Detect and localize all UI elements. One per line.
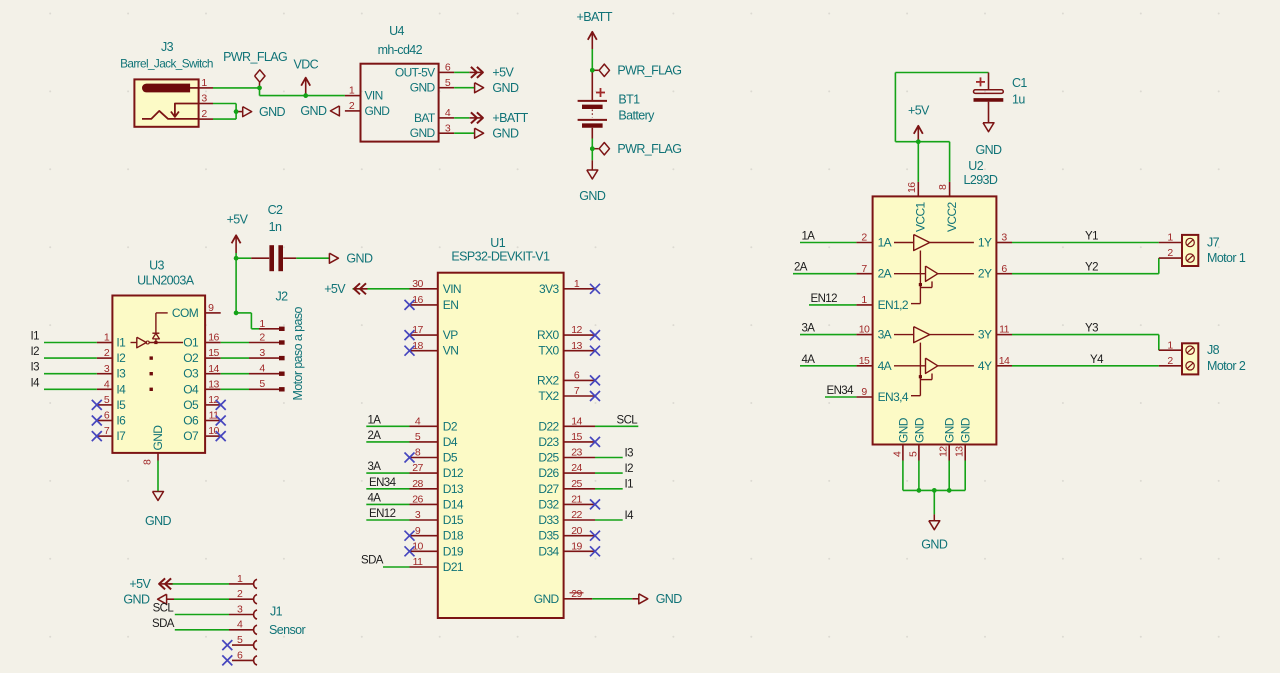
svg-text:3: 3 bbox=[415, 509, 421, 521]
svg-text:11: 11 bbox=[999, 324, 1009, 336]
svg-text:1: 1 bbox=[861, 294, 867, 306]
svg-text:6: 6 bbox=[574, 370, 580, 382]
svg-text:+5V: +5V bbox=[908, 104, 930, 118]
svg-text:5: 5 bbox=[237, 634, 243, 646]
svg-text:RX0: RX0 bbox=[537, 328, 559, 342]
svg-text:4: 4 bbox=[891, 451, 903, 457]
svg-text:2A: 2A bbox=[878, 267, 892, 281]
svg-text:21: 21 bbox=[571, 494, 582, 506]
svg-text:1Y: 1Y bbox=[978, 236, 992, 250]
svg-text:4: 4 bbox=[259, 363, 265, 375]
svg-text:1A: 1A bbox=[878, 236, 892, 250]
svg-text:7: 7 bbox=[861, 263, 867, 275]
svg-text:4: 4 bbox=[104, 378, 110, 390]
svg-text:U4: U4 bbox=[389, 24, 404, 38]
svg-text:GND: GND bbox=[896, 417, 910, 443]
svg-text:D12: D12 bbox=[443, 466, 464, 480]
svg-text:5: 5 bbox=[445, 77, 451, 89]
svg-text:VN: VN bbox=[443, 344, 458, 358]
svg-text:PWR_FLAG: PWR_FLAG bbox=[617, 64, 681, 78]
svg-text:COM: COM bbox=[172, 306, 199, 320]
svg-text:16: 16 bbox=[906, 182, 918, 193]
svg-text:O4: O4 bbox=[183, 382, 199, 396]
svg-text:I2: I2 bbox=[31, 346, 40, 358]
svg-text:6: 6 bbox=[445, 62, 451, 74]
svg-text:D4: D4 bbox=[443, 435, 458, 449]
svg-text:D33: D33 bbox=[538, 513, 559, 527]
svg-text:2: 2 bbox=[1167, 247, 1173, 259]
svg-text:J2: J2 bbox=[275, 289, 288, 303]
svg-text:O6: O6 bbox=[183, 414, 199, 428]
svg-text:15: 15 bbox=[571, 431, 582, 443]
svg-text:TX0: TX0 bbox=[538, 344, 559, 358]
svg-text:EN34: EN34 bbox=[369, 477, 397, 489]
svg-text:14: 14 bbox=[999, 355, 1010, 367]
svg-text:14: 14 bbox=[571, 415, 582, 427]
svg-text:Sensor: Sensor bbox=[269, 623, 305, 637]
svg-text:Motor 1: Motor 1 bbox=[1207, 251, 1246, 265]
svg-text:I2: I2 bbox=[116, 351, 126, 365]
svg-text:4: 4 bbox=[237, 619, 243, 631]
svg-text:12: 12 bbox=[571, 324, 582, 336]
svg-text:2: 2 bbox=[1167, 355, 1173, 367]
svg-text:I4: I4 bbox=[31, 377, 41, 389]
svg-text:D32: D32 bbox=[538, 497, 559, 511]
svg-text:D22: D22 bbox=[538, 419, 559, 433]
svg-text:7: 7 bbox=[574, 385, 580, 397]
svg-text:PWR_FLAG: PWR_FLAG bbox=[617, 142, 681, 156]
svg-text:25: 25 bbox=[571, 478, 582, 490]
svg-text:I4: I4 bbox=[116, 382, 126, 396]
svg-text:U3: U3 bbox=[149, 259, 164, 273]
svg-text:O3: O3 bbox=[183, 367, 199, 381]
svg-text:GND: GND bbox=[123, 593, 150, 607]
svg-text:15: 15 bbox=[859, 355, 870, 367]
svg-text:5: 5 bbox=[104, 394, 110, 406]
svg-text:2: 2 bbox=[104, 347, 110, 359]
svg-text:RX2: RX2 bbox=[537, 373, 559, 387]
svg-text:SDA: SDA bbox=[152, 618, 175, 630]
svg-text:VP: VP bbox=[443, 328, 458, 342]
svg-text:19: 19 bbox=[571, 540, 582, 552]
svg-text:D15: D15 bbox=[443, 513, 464, 527]
svg-text:2: 2 bbox=[861, 232, 867, 244]
svg-text:O7: O7 bbox=[183, 429, 199, 443]
svg-text:EN3,4: EN3,4 bbox=[878, 390, 909, 404]
svg-text:GND: GND bbox=[921, 538, 948, 552]
svg-text:GND: GND bbox=[145, 514, 172, 528]
svg-text:20: 20 bbox=[571, 525, 582, 537]
svg-text:23: 23 bbox=[571, 447, 582, 459]
svg-text:2Y: 2Y bbox=[978, 267, 992, 281]
svg-text:8: 8 bbox=[937, 184, 949, 190]
svg-text:30: 30 bbox=[412, 278, 423, 290]
svg-text:D19: D19 bbox=[443, 544, 464, 558]
svg-text:5: 5 bbox=[415, 431, 421, 443]
svg-text:I6: I6 bbox=[116, 414, 126, 428]
svg-text:2: 2 bbox=[349, 100, 355, 112]
svg-text:3A: 3A bbox=[368, 461, 382, 473]
svg-text:I4: I4 bbox=[625, 510, 635, 522]
svg-text:D14: D14 bbox=[443, 497, 464, 511]
svg-text:I1: I1 bbox=[31, 331, 40, 343]
svg-text:D25: D25 bbox=[538, 451, 559, 465]
svg-text:3Y: 3Y bbox=[978, 328, 992, 342]
svg-text:6: 6 bbox=[1001, 263, 1007, 275]
svg-text:SDA: SDA bbox=[361, 555, 384, 567]
svg-text:OUT-5V: OUT-5V bbox=[395, 65, 435, 79]
svg-text:1u: 1u bbox=[1012, 92, 1025, 106]
svg-text:4A: 4A bbox=[878, 359, 892, 373]
svg-text:6: 6 bbox=[237, 649, 243, 661]
svg-text:2: 2 bbox=[259, 331, 265, 343]
svg-text:1: 1 bbox=[237, 573, 243, 585]
svg-text:GND: GND bbox=[410, 126, 436, 140]
svg-text:+BATT: +BATT bbox=[492, 111, 528, 125]
svg-text:Y1: Y1 bbox=[1085, 231, 1098, 243]
svg-text:27: 27 bbox=[412, 462, 423, 474]
svg-text:5: 5 bbox=[907, 451, 919, 457]
svg-text:6: 6 bbox=[104, 410, 110, 422]
svg-text:9: 9 bbox=[208, 302, 214, 314]
svg-text:D2: D2 bbox=[443, 419, 458, 433]
svg-text:D35: D35 bbox=[538, 529, 559, 543]
svg-text:J1: J1 bbox=[270, 605, 283, 619]
svg-text:O2: O2 bbox=[183, 351, 199, 365]
svg-text:4A: 4A bbox=[802, 354, 816, 366]
svg-text:22: 22 bbox=[571, 509, 582, 521]
svg-text:GND: GND bbox=[300, 104, 327, 118]
svg-text:26: 26 bbox=[412, 494, 423, 506]
svg-text:SCL: SCL bbox=[617, 414, 639, 426]
svg-text:VCC2: VCC2 bbox=[945, 201, 959, 232]
svg-text:1: 1 bbox=[1167, 339, 1173, 351]
svg-text:1: 1 bbox=[574, 278, 580, 290]
svg-text:I5: I5 bbox=[116, 398, 126, 412]
svg-text:GND: GND bbox=[346, 252, 373, 266]
svg-text:GND: GND bbox=[492, 81, 519, 95]
svg-text:GND: GND bbox=[151, 425, 165, 451]
svg-text:GND: GND bbox=[492, 127, 519, 141]
svg-text:7: 7 bbox=[104, 425, 110, 437]
svg-text:EN: EN bbox=[443, 298, 458, 312]
svg-text:I3: I3 bbox=[625, 447, 634, 459]
svg-text:J3: J3 bbox=[161, 40, 174, 54]
svg-text:U2: U2 bbox=[968, 159, 983, 173]
svg-text:GND: GND bbox=[976, 143, 1003, 157]
svg-text:2: 2 bbox=[201, 108, 207, 120]
svg-text:D34: D34 bbox=[538, 544, 559, 558]
svg-text:ESP32-DEVKIT-V1: ESP32-DEVKIT-V1 bbox=[451, 249, 550, 263]
svg-text:I3: I3 bbox=[31, 362, 40, 374]
svg-text:8: 8 bbox=[142, 459, 154, 465]
svg-text:I1: I1 bbox=[625, 479, 634, 491]
svg-text:+5V: +5V bbox=[492, 66, 514, 80]
svg-text:TX2: TX2 bbox=[538, 389, 559, 403]
svg-text:Motor paso a paso: Motor paso a paso bbox=[291, 307, 305, 401]
svg-text:3: 3 bbox=[104, 363, 110, 375]
svg-text:13: 13 bbox=[571, 340, 582, 352]
svg-text:3: 3 bbox=[445, 122, 451, 134]
svg-text:EN12: EN12 bbox=[811, 293, 838, 305]
svg-text:EN1,2: EN1,2 bbox=[878, 298, 909, 312]
svg-text:GND: GND bbox=[534, 592, 560, 606]
svg-text:D21: D21 bbox=[443, 560, 464, 574]
svg-text:9: 9 bbox=[861, 386, 867, 398]
svg-text:D27: D27 bbox=[538, 482, 559, 496]
svg-text:1A: 1A bbox=[368, 414, 382, 426]
svg-text:1A: 1A bbox=[802, 231, 816, 243]
svg-text:C1: C1 bbox=[1012, 76, 1027, 90]
svg-text:C2: C2 bbox=[268, 203, 283, 217]
svg-text:U1: U1 bbox=[490, 236, 505, 250]
svg-text:24: 24 bbox=[571, 462, 582, 474]
svg-text:1: 1 bbox=[104, 332, 110, 344]
svg-text:Motor 2: Motor 2 bbox=[1207, 359, 1246, 373]
svg-text:VIN: VIN bbox=[365, 89, 383, 103]
svg-text:VCC1: VCC1 bbox=[913, 201, 927, 232]
svg-text:1n: 1n bbox=[269, 220, 282, 234]
svg-text:3A: 3A bbox=[878, 328, 892, 342]
svg-text:4Y: 4Y bbox=[978, 359, 992, 373]
svg-text:GND: GND bbox=[410, 81, 436, 95]
svg-text:VDC: VDC bbox=[294, 58, 319, 72]
svg-text:4: 4 bbox=[415, 415, 421, 427]
svg-text:11: 11 bbox=[413, 556, 423, 568]
svg-text:5: 5 bbox=[259, 378, 265, 390]
svg-text:VIN: VIN bbox=[443, 282, 461, 296]
svg-text:SCL: SCL bbox=[153, 603, 175, 615]
svg-text:J7: J7 bbox=[1207, 236, 1220, 250]
svg-text:J8: J8 bbox=[1207, 343, 1220, 357]
svg-text:D18: D18 bbox=[443, 529, 464, 543]
svg-text:Y3: Y3 bbox=[1085, 323, 1098, 335]
svg-text:GND: GND bbox=[579, 189, 606, 203]
svg-text:3: 3 bbox=[259, 347, 265, 359]
svg-text:3A: 3A bbox=[802, 323, 816, 335]
svg-text:BAT: BAT bbox=[414, 111, 436, 125]
svg-text:I3: I3 bbox=[116, 367, 126, 381]
svg-text:2A: 2A bbox=[794, 262, 808, 274]
svg-text:9: 9 bbox=[415, 525, 421, 537]
svg-text:BT1: BT1 bbox=[618, 92, 640, 106]
svg-text:12: 12 bbox=[938, 446, 950, 457]
svg-text:10: 10 bbox=[859, 324, 870, 336]
svg-text:1: 1 bbox=[1167, 232, 1173, 244]
svg-text:PWR_FLAG: PWR_FLAG bbox=[223, 50, 287, 64]
svg-text:ULN2003A: ULN2003A bbox=[137, 274, 195, 288]
svg-text:4: 4 bbox=[445, 107, 451, 119]
svg-text:I7: I7 bbox=[116, 429, 126, 443]
svg-text:EN34: EN34 bbox=[827, 385, 855, 397]
svg-text:GND: GND bbox=[365, 104, 391, 118]
svg-text:mh-cd42: mh-cd42 bbox=[378, 43, 423, 57]
svg-text:13: 13 bbox=[954, 446, 966, 457]
svg-text:Y2: Y2 bbox=[1085, 262, 1098, 274]
svg-text:GND: GND bbox=[943, 417, 957, 443]
svg-text:+5V: +5V bbox=[324, 282, 346, 296]
svg-text:I1: I1 bbox=[116, 336, 126, 350]
svg-text:28: 28 bbox=[412, 478, 423, 490]
svg-text:+5V: +5V bbox=[129, 577, 151, 591]
svg-text:1: 1 bbox=[201, 77, 207, 89]
svg-text:3: 3 bbox=[1001, 232, 1007, 244]
svg-text:1: 1 bbox=[349, 85, 355, 97]
svg-text:GND: GND bbox=[959, 417, 973, 443]
svg-text:O1: O1 bbox=[183, 336, 199, 350]
svg-text:+5V: +5V bbox=[227, 212, 249, 226]
svg-text:3V3: 3V3 bbox=[539, 282, 559, 296]
svg-text:D23: D23 bbox=[538, 435, 559, 449]
svg-text:O5: O5 bbox=[183, 398, 199, 412]
svg-text:I2: I2 bbox=[625, 463, 634, 475]
svg-text:D5: D5 bbox=[443, 451, 458, 465]
svg-text:GND: GND bbox=[259, 105, 286, 119]
svg-text:GND: GND bbox=[912, 417, 926, 443]
svg-text:+BATT: +BATT bbox=[577, 10, 613, 24]
svg-text:29: 29 bbox=[571, 588, 582, 600]
svg-text:Barrel_Jack_Switch: Barrel_Jack_Switch bbox=[120, 57, 213, 71]
svg-text:EN12: EN12 bbox=[369, 508, 396, 520]
svg-text:3: 3 bbox=[201, 93, 207, 105]
svg-text:4A: 4A bbox=[368, 492, 382, 504]
svg-text:2: 2 bbox=[237, 588, 243, 600]
svg-text:3: 3 bbox=[237, 603, 243, 615]
svg-text:1: 1 bbox=[259, 318, 265, 330]
svg-text:GND: GND bbox=[656, 592, 683, 606]
svg-text:2A: 2A bbox=[368, 430, 382, 442]
svg-text:8: 8 bbox=[415, 447, 421, 459]
svg-text:Battery: Battery bbox=[618, 108, 655, 122]
svg-text:D26: D26 bbox=[538, 466, 559, 480]
svg-text:Y4: Y4 bbox=[1090, 354, 1104, 366]
svg-text:L293D: L293D bbox=[964, 173, 998, 187]
svg-text:D13: D13 bbox=[443, 482, 464, 496]
